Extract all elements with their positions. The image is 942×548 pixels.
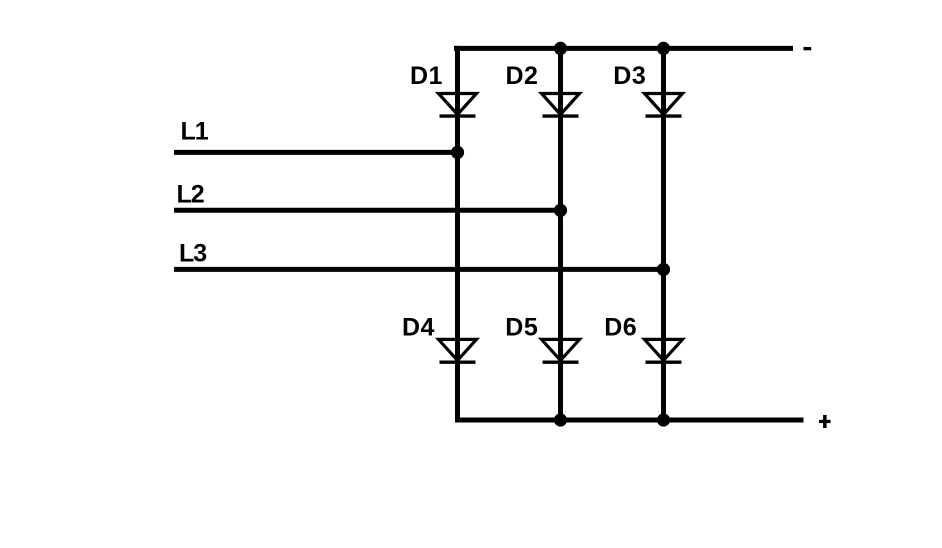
svg-text:D4: D4	[402, 313, 435, 341]
diode D5	[542, 339, 580, 362]
junction dot: top bus / D3 branch	[657, 42, 670, 55]
wire: D2/D5 branch vertical	[558, 46, 563, 423]
svg-text:L3: L3	[179, 239, 206, 267]
wire: D1/D4 branch vertical	[455, 46, 460, 423]
junction dot: L2 / D2 branch	[554, 204, 567, 217]
svg-text:D5: D5	[505, 313, 538, 341]
svg-text:D2: D2	[506, 62, 539, 90]
diode D6	[645, 339, 683, 362]
wire: phase input L1	[174, 150, 458, 155]
wire: negative bus (top horizontal)	[454, 46, 793, 51]
svg-text:L1: L1	[181, 117, 209, 145]
diode D1	[439, 94, 477, 117]
diode D2	[542, 94, 580, 117]
diode D4	[439, 339, 477, 362]
wire: D3/D6 branch vertical	[661, 46, 666, 423]
junction dot: bottom bus / D6 branch	[657, 413, 670, 426]
svg-text:D3: D3	[613, 62, 646, 90]
diode D3	[645, 94, 683, 117]
junction dot: bottom bus / D5 branch	[554, 413, 567, 426]
svg-text:D1: D1	[410, 62, 443, 90]
terminal label: minus	[804, 47, 812, 50]
wire: positive bus (bottom horizontal)	[455, 418, 804, 423]
svg-text:L2: L2	[177, 180, 204, 208]
svg-text:D6: D6	[604, 313, 637, 341]
wire: phase input L3	[174, 267, 664, 272]
terminal label: plus	[819, 415, 831, 428]
junction dot: L1 / D1 branch	[451, 146, 464, 159]
junction dot: top bus / D2 branch	[554, 42, 567, 55]
wire: phase input L2	[174, 208, 561, 213]
junction dot: L3 / D3 branch	[657, 263, 670, 276]
